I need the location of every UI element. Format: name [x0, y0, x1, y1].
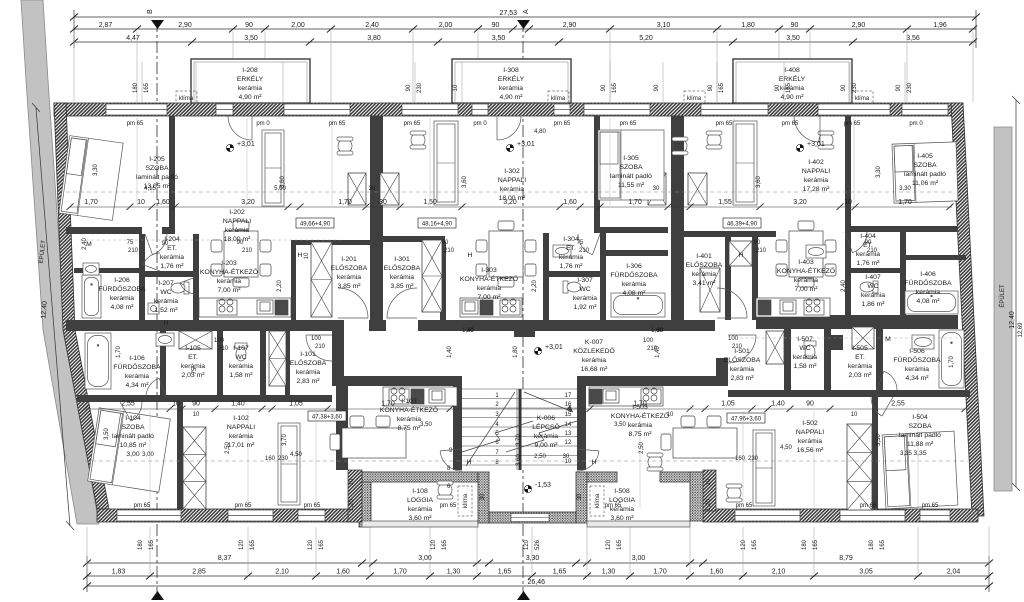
svg-text:pm 65: pm 65 — [736, 503, 753, 509]
svg-text:I-401: I-401 — [696, 253, 712, 260]
svg-text:160: 160 — [735, 456, 746, 462]
boxed level label level I-4xx — [723, 218, 761, 228]
svg-text:4,90 m²: 4,90 m² — [238, 94, 262, 101]
svg-text:FÜRDŐSZOBA: FÜRDŐSZOBA — [893, 355, 941, 364]
svg-text:210: 210 — [128, 248, 139, 254]
svg-text:4,34 m²: 4,34 m² — [905, 375, 929, 382]
axis A — [517, 9, 530, 600]
door door I-405 — [845, 232, 867, 253]
wall I-402/I-405 — [845, 116, 851, 226]
svg-text:I-107: I-107 — [233, 345, 249, 352]
dashed guide line lower — [85, 460, 968, 462]
svg-text:KÖZLEKEDŐ: KÖZLEKEDŐ — [573, 346, 615, 355]
svg-text:3,50: 3,50 — [420, 422, 432, 428]
svg-text:15: 15 — [565, 412, 572, 418]
party wall I-3xx/I-4xx — [671, 116, 684, 331]
svg-text:pm 65: pm 65 — [844, 121, 861, 127]
svg-text:90: 90 — [708, 84, 714, 91]
svg-text:SZOBA: SZOBA — [121, 424, 145, 431]
toilet I-207 — [171, 282, 189, 294]
armchair I-103 — [437, 481, 453, 499]
svg-text:H: H — [468, 252, 473, 259]
svg-text:1,70: 1,70 — [116, 346, 122, 358]
bed I-405 — [892, 142, 958, 203]
svg-text:2,20: 2,20 — [277, 280, 283, 292]
svg-text:2,00: 2,00 — [291, 22, 305, 29]
svg-text:I-203: I-203 — [221, 260, 237, 267]
svg-text:90: 90 — [654, 84, 660, 91]
left vertical dimension 12,40 — [32, 103, 74, 530]
svg-text:kerámia: kerámia — [154, 298, 178, 305]
svg-text:3,80: 3,80 — [367, 35, 381, 42]
svg-text:3,70: 3,70 — [516, 434, 522, 446]
wardrobe I-104/I-102 — [183, 427, 206, 509]
svg-text:pm 65: pm 65 — [716, 121, 733, 127]
dimension chain top row2 — [70, 35, 977, 46]
svg-text:90: 90 — [775, 84, 781, 91]
svg-text:H: H — [739, 252, 744, 259]
room label I-401 előszoba — [686, 253, 723, 287]
svg-text:165: 165 — [880, 539, 886, 550]
svg-text:180: 180 — [802, 539, 808, 550]
svg-text:kerámia: kerámia — [692, 271, 716, 278]
svg-text:1,70: 1,70 — [84, 199, 98, 206]
elevation marker I-3xx — [506, 141, 534, 152]
dining table I-403 — [776, 221, 836, 287]
svg-text:I-505: I-505 — [852, 345, 868, 352]
svg-text:165: 165 — [617, 539, 623, 550]
balcony I-308 ERKÉLY — [452, 59, 571, 103]
svg-text:3,30: 3,30 — [876, 166, 882, 178]
shaft H I-2xx — [311, 242, 332, 317]
klíma box loggia I-508 — [590, 486, 604, 516]
svg-text:90: 90 — [791, 22, 799, 29]
room label K-007 közlekedő — [573, 339, 615, 373]
room label I-504 szoba — [899, 414, 941, 457]
svg-text:kerámia: kerámia — [225, 227, 249, 234]
svg-text:ELŐSZOBA: ELŐSZOBA — [686, 260, 723, 269]
svg-text:10: 10 — [851, 412, 858, 418]
room label I-301 előszoba — [384, 256, 421, 290]
svg-text:2,04: 2,04 — [947, 569, 961, 576]
door door I-504 — [871, 397, 893, 416]
svg-text:165: 165 — [612, 82, 618, 93]
armchair I-305 — [672, 137, 688, 155]
room label I-104 szoba — [112, 415, 154, 458]
room label I-307 wc area — [573, 295, 597, 311]
svg-text:NAPPALI: NAPPALI — [796, 429, 824, 436]
svg-text:I-301: I-301 — [394, 256, 410, 263]
svg-text:kerámia: kerámia — [534, 433, 558, 440]
svg-text:12,40: 12,40 — [1009, 311, 1016, 329]
svg-text:I-302: I-302 — [504, 168, 520, 175]
svg-text:165: 165 — [752, 539, 758, 550]
svg-text:FÜRDŐSZOBA: FÜRDŐSZOBA — [98, 284, 146, 293]
svg-text:160: 160 — [265, 456, 276, 462]
room label I-304 et — [563, 236, 579, 252]
outer wall top — [54, 103, 963, 116]
site boundary gray band right — [994, 127, 1012, 491]
svg-text:2,50: 2,50 — [225, 442, 231, 454]
svg-text:klíma: klíma — [855, 96, 870, 102]
kitchen counter I-403 — [756, 298, 830, 317]
svg-text:I-508: I-508 — [614, 488, 630, 495]
svg-text:H: H — [467, 459, 472, 466]
svg-text:30: 30 — [379, 199, 387, 206]
svg-text:I-101: I-101 — [300, 351, 316, 358]
svg-text:pm 0: pm 0 — [909, 121, 923, 127]
svg-text:1,80: 1,80 — [741, 22, 755, 29]
svg-text:16,68 m²: 16,68 m² — [581, 366, 609, 373]
middle spine wall left — [66, 320, 337, 331]
svg-text:ELŐSZOBA: ELŐSZOBA — [331, 263, 368, 272]
svg-text:ET.: ET. — [566, 245, 576, 252]
middle spine wall center2 — [418, 320, 715, 331]
room label I-505 et area — [848, 363, 872, 379]
stairwell west wall — [453, 376, 462, 470]
svg-text:12: 12 — [565, 440, 572, 446]
svg-text:26,46: 26,46 — [527, 579, 545, 586]
site boundary gray band left — [21, 0, 99, 524]
svg-text:FÜRDŐSZOBA: FÜRDŐSZOBA — [113, 362, 161, 371]
room label I-201 előszoba — [331, 256, 368, 290]
party wall I-2xx/I-3xx — [370, 116, 383, 331]
loggia I-108 walls — [359, 472, 478, 527]
wall shaft/I-101 — [285, 331, 290, 397]
svg-text:3,00: 3,00 — [126, 451, 139, 458]
washbasin I-506 — [912, 335, 934, 349]
svg-text:kerámia: kerámia — [582, 357, 606, 364]
svg-text:4,08 m²: 4,08 m² — [916, 298, 940, 305]
axis B — [145, 9, 164, 600]
room label I-107 wc area — [229, 363, 253, 379]
svg-text:3,05: 3,05 — [859, 569, 873, 576]
svg-text:I-208: I-208 — [242, 67, 258, 74]
svg-text:210: 210 — [218, 346, 229, 352]
svg-text:2,83 m²: 2,83 m² — [296, 378, 320, 385]
balcony I-208 ERKÉLY — [191, 59, 310, 103]
svg-text:1,70: 1,70 — [338, 199, 352, 206]
svg-text:3,50: 3,50 — [104, 428, 110, 440]
svg-text:3,60 m²: 3,60 m² — [408, 515, 432, 522]
svg-text:180: 180 — [138, 539, 144, 550]
svg-text:27,53: 27,53 — [499, 10, 517, 17]
svg-text:2,00: 2,00 — [439, 22, 453, 29]
svg-text:ET.: ET. — [167, 245, 177, 252]
svg-text:8,75 m²: 8,75 m² — [397, 425, 421, 432]
svg-text:I-303: I-303 — [481, 267, 497, 274]
door door I-207 — [180, 277, 196, 294]
staircase step numbers left — [495, 393, 499, 466]
wall under service rooms left — [77, 395, 332, 402]
staircase K-006 treads — [462, 389, 577, 470]
interior dimension row lower — [82, 406, 969, 413]
svg-text:pm 65: pm 65 — [127, 121, 144, 127]
bathtub I-406 — [905, 291, 958, 314]
svg-text:100: 100 — [643, 338, 654, 344]
svg-text:3,30: 3,30 — [899, 186, 911, 192]
room label I-202 nappali — [223, 209, 251, 243]
svg-text:kerámia: kerámia — [408, 506, 432, 513]
room label I-204 et — [164, 236, 180, 252]
svg-text:2,40: 2,40 — [841, 280, 847, 292]
svg-text:4,08 m²: 4,08 m² — [622, 290, 646, 297]
svg-text:B: B — [145, 9, 154, 14]
svg-text:klíma: klíma — [687, 96, 702, 102]
door door I-305 — [578, 234, 600, 255]
svg-text:11,55 m²: 11,55 m² — [618, 182, 645, 189]
room label I-205 szoba — [136, 156, 178, 190]
svg-text:10: 10 — [137, 199, 145, 206]
svg-text:laminált padló: laminált padló — [136, 174, 178, 181]
svg-text:9,00 m²: 9,00 m² — [534, 442, 558, 449]
svg-text:klíma: klíma — [551, 96, 566, 102]
svg-text:3,50: 3,50 — [786, 35, 800, 42]
wardrobe I-302 east — [648, 173, 666, 205]
svg-text:kerámia: kerámia — [337, 274, 361, 281]
stair break line — [462, 421, 577, 452]
svg-text:kerámia: kerámia — [500, 186, 524, 193]
room label I-405 szoba — [904, 153, 946, 187]
svg-text:1,70: 1,70 — [653, 569, 667, 576]
svg-text:1,58 m²: 1,58 m² — [229, 372, 253, 379]
room label I-506 fürdőszoba — [893, 348, 941, 382]
outer wall bottom left section — [97, 509, 362, 522]
svg-text:100: 100 — [311, 336, 322, 342]
kitchen counter I-503 — [589, 387, 663, 406]
wall I-404 west — [845, 232, 851, 320]
room label I-106 fürdőszoba — [113, 355, 161, 389]
svg-text:K-007: K-007 — [585, 339, 603, 346]
svg-text:laminált padló: laminált padló — [112, 433, 154, 440]
svg-text:H: H — [164, 320, 169, 327]
svg-text:1,92 m²: 1,92 m² — [573, 304, 597, 311]
room label I-102 nappali — [227, 415, 255, 449]
svg-text:1,05: 1,05 — [721, 401, 735, 408]
svg-text:30: 30 — [563, 454, 570, 460]
svg-text:WC: WC — [867, 283, 878, 290]
svg-text:klíma: klíma — [463, 493, 469, 508]
svg-text:4,15: 4,15 — [144, 186, 156, 192]
dimension chain top row1 — [70, 22, 977, 33]
svg-text:90: 90 — [865, 240, 872, 246]
room label I-302 nappali — [498, 168, 526, 202]
door door I-206 — [143, 253, 160, 271]
svg-text:165: 165 — [786, 82, 792, 93]
svg-text:4,34 m²: 4,34 m² — [125, 382, 149, 389]
svg-text:16: 16 — [565, 402, 572, 408]
svg-text:165: 165 — [149, 539, 155, 550]
wardrobe I-105 — [179, 331, 212, 349]
pm window head labels bottom — [134, 503, 939, 509]
svg-text:526: 526 — [535, 539, 541, 550]
door door I-105 — [146, 378, 166, 397]
svg-text:10: 10 — [844, 199, 852, 206]
shaft bottom left — [269, 331, 286, 386]
svg-text:FÜRDŐSZOBA: FÜRDŐSZOBA — [610, 270, 658, 279]
svg-text:1,58 m²: 1,58 m² — [793, 363, 817, 370]
svg-text:-1,53: -1,53 — [535, 482, 551, 489]
svg-text:2,10: 2,10 — [275, 569, 289, 576]
svg-text:3,60 m²: 3,60 m² — [610, 515, 634, 522]
room label I-306 fürdőszoba — [610, 263, 658, 297]
svg-text:kerámia: kerámia — [390, 274, 414, 281]
svg-text:+3,01: +3,01 — [237, 141, 255, 148]
armchair I-402 — [706, 131, 722, 149]
svg-text:I-503: I-503 — [632, 404, 648, 411]
svg-text:210: 210 — [756, 248, 767, 254]
room label I-505 et — [852, 345, 868, 361]
svg-text:17,28 m²: 17,28 m² — [803, 186, 831, 193]
wall I-302 side/I-305 — [594, 116, 600, 227]
door door I-104 — [120, 402, 142, 421]
svg-text:kerámia: kerámia — [477, 285, 501, 292]
svg-text:I-405: I-405 — [917, 153, 933, 160]
svg-text:4,90 m²: 4,90 m² — [499, 94, 523, 101]
svg-text:47,96+3,60: 47,96+3,60 — [731, 417, 762, 423]
svg-text:LÉPCSŐ: LÉPCSŐ — [532, 422, 560, 431]
outer wall bottom right section — [703, 509, 978, 522]
wall under szoba I-205 west part — [66, 227, 142, 234]
svg-text:10: 10 — [706, 478, 712, 485]
svg-text:NAPPALI: NAPPALI — [802, 168, 830, 175]
svg-text:kerámia: kerámia — [499, 85, 523, 92]
elevation marker K-007 — [534, 344, 562, 355]
svg-text:3,20: 3,20 — [241, 199, 255, 206]
svg-text:kerámia: kerámia — [916, 289, 940, 296]
svg-text:230: 230 — [852, 82, 858, 93]
svg-text:2,40: 2,40 — [82, 238, 88, 250]
svg-text:90: 90 — [492, 22, 500, 29]
armchair I-502 — [726, 484, 742, 502]
sofa I-502 — [753, 430, 775, 506]
wall I-301/I-303 — [440, 242, 446, 320]
svg-text:2,55: 2,55 — [121, 401, 135, 408]
shaft I-505 — [852, 327, 874, 349]
loggia side dims — [349, 478, 712, 511]
svg-text:30: 30 — [480, 493, 486, 500]
wardrobe I-301 — [422, 240, 442, 312]
svg-text:kerámia: kerámia — [730, 366, 754, 373]
svg-text:180: 180 — [869, 539, 875, 550]
svg-text:3,41 m²: 3,41 m² — [692, 280, 716, 287]
svg-text:FÜRDŐSZOBA: FÜRDŐSZOBA — [904, 278, 952, 287]
sofa I-202 — [262, 130, 284, 206]
witness lines top — [74, 31, 973, 102]
svg-text:2,90: 2,90 — [178, 22, 192, 29]
svg-text:pm 65: pm 65 — [605, 503, 622, 509]
wardrobe I-501 — [766, 331, 784, 364]
wall under szoba I-305 — [594, 227, 668, 233]
room label I-303 konyha — [460, 267, 518, 301]
svg-text:90: 90 — [406, 84, 412, 91]
rug I-305 — [598, 130, 664, 200]
svg-text:I-306: I-306 — [626, 263, 642, 270]
svg-text:3,85 m²: 3,85 m² — [337, 283, 361, 290]
svg-text:I-406: I-406 — [920, 271, 936, 278]
svg-text:90: 90 — [237, 240, 244, 246]
svg-text:laminált padló: laminált padló — [899, 432, 941, 439]
armchair I-402b — [818, 131, 834, 149]
svg-text:kerámia: kerámia — [804, 177, 828, 184]
pm window head labels top — [127, 121, 924, 127]
svg-text:kerámia: kerámia — [861, 292, 885, 299]
svg-text:230: 230 — [417, 82, 423, 93]
svg-text:120: 120 — [524, 539, 530, 550]
svg-text:I-308: I-308 — [503, 67, 519, 74]
svg-text:kerámia: kerámia — [905, 366, 929, 373]
svg-text:3,70: 3,70 — [282, 434, 288, 446]
door entry I-101 — [306, 335, 332, 361]
svg-text:pm 65: pm 65 — [554, 121, 571, 127]
svg-text:1,70: 1,70 — [628, 199, 642, 206]
svg-text:1,65: 1,65 — [553, 569, 567, 576]
svg-text:I-202: I-202 — [229, 209, 245, 216]
svg-text:1,76 m²: 1,76 m² — [559, 263, 583, 270]
svg-text:3,60: 3,60 — [756, 176, 762, 188]
svg-text:pm 0: pm 0 — [473, 121, 487, 127]
wall connector right loggia — [703, 470, 716, 511]
svg-text:I-307: I-307 — [577, 277, 593, 284]
stairwell east wall — [577, 376, 586, 470]
svg-text:30: 30 — [653, 186, 660, 192]
svg-text:pm 65: pm 65 — [304, 503, 321, 509]
svg-text:K-006: K-006 — [537, 415, 555, 422]
wall I-303/I-304 — [543, 233, 549, 320]
svg-text:1,83: 1,83 — [112, 569, 126, 576]
elevation marker I-4xx — [796, 141, 824, 152]
svg-text:8,79: 8,79 — [839, 555, 853, 562]
svg-text:4,50: 4,50 — [780, 445, 792, 451]
svg-text:17,01 m²: 17,01 m² — [228, 442, 256, 449]
svg-text:kerámia: kerámia — [622, 281, 646, 288]
svg-text:120: 120 — [308, 539, 314, 550]
svg-text:90: 90 — [896, 84, 902, 91]
boxed level label level I-2xx — [296, 218, 334, 228]
kitchen counter I-103 — [383, 387, 457, 406]
dining table I-503 — [661, 416, 737, 458]
wall I-204/I-207 — [139, 271, 199, 277]
boxed level label level I-3xx — [418, 218, 456, 228]
svg-text:I-105: I-105 — [185, 345, 201, 352]
svg-text:I-403: I-403 — [798, 259, 814, 266]
svg-text:230: 230 — [907, 82, 913, 93]
bathtub I-206 — [82, 275, 101, 318]
room label I-105 et area — [181, 363, 205, 379]
svg-text:7,00 m²: 7,00 m² — [217, 287, 241, 294]
svg-text:210: 210 — [732, 344, 743, 350]
svg-text:laminált padló: laminált padló — [610, 173, 652, 180]
svg-text:pm 65: pm 65 — [329, 121, 346, 127]
svg-text:90: 90 — [442, 240, 449, 246]
svg-text:90: 90 — [841, 84, 847, 91]
svg-text:I-404: I-404 — [860, 233, 876, 240]
klíma boxes — [176, 91, 873, 103]
svg-text:11,88 m²: 11,88 m² — [907, 441, 934, 448]
svg-text:75: 75 — [192, 367, 198, 374]
svg-text:120: 120 — [239, 539, 245, 550]
room label I-501 előszoba — [724, 348, 761, 382]
wall I-106/I-105 — [160, 331, 166, 397]
wall I-107/shaft — [260, 331, 266, 397]
door door I-103/loggia — [440, 449, 462, 471]
svg-text:2,50: 2,50 — [639, 442, 645, 454]
staircase lower flight numbers — [447, 448, 453, 490]
svg-text:11,06 m²: 11,06 m² — [912, 180, 939, 187]
bottom dimension chain row1 — [87, 556, 989, 592]
svg-text:pm 0: pm 0 — [256, 121, 270, 127]
svg-text:+3,01: +3,01 — [517, 141, 535, 148]
